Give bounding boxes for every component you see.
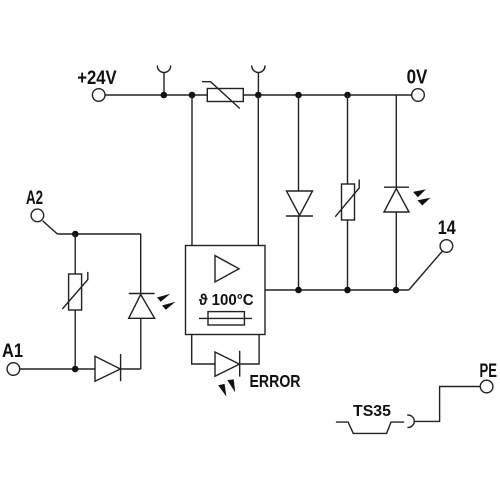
LED D5 light arrow 1 [157, 294, 170, 302]
varistor RV1 diagonal [202, 82, 240, 109]
wire diode branch upper [298, 95, 300, 191]
diode D1 [95, 354, 121, 381]
varistor RV3 body [69, 274, 82, 310]
svg-text:+24V: +24V [77, 67, 117, 89]
varistor RV3 diagonal [62, 272, 88, 309]
wire socket stem 1 [163, 73, 165, 95]
wire A2 diagonal lead [43, 221, 58, 234]
fuse F1 body [208, 312, 244, 325]
svg-text:14: 14 [438, 217, 456, 239]
wire LED branch upper [395, 95, 397, 187]
ERROR LED D4 [215, 351, 240, 377]
ERROR LED light arrow 2 [227, 379, 235, 392]
junction dot A1 wire [72, 366, 79, 373]
ERROR LED light arrow 1 [218, 384, 226, 397]
DIN rail TS35 profile [336, 422, 404, 433]
junction dot top bus (diode branch) [295, 92, 302, 99]
LED D5 light arrow 2 [162, 302, 176, 310]
terminal A2 [31, 209, 44, 222]
varistor RV2 body [342, 184, 355, 220]
varistor RV2 diagonal [335, 180, 359, 217]
wire lower bus [265, 289, 409, 291]
wire LED D5 upper lead [140, 234, 142, 294]
LED D3 light arrow 1 [413, 189, 426, 197]
svg-text:A1: A1 [2, 340, 23, 362]
wire LED branch lower [395, 212, 397, 290]
relay electronics box U1 [186, 246, 266, 335]
svg-text:ERROR: ERROR [250, 371, 301, 391]
wire PE lead [414, 387, 480, 422]
LED D3 [384, 187, 409, 212]
wire box left lead [191, 95, 193, 246]
wire varistor RV3 lower lead [74, 310, 76, 369]
terminal A1 [7, 363, 20, 376]
socket contact arc 2 [252, 65, 265, 72]
socket contact arc PE [407, 415, 414, 427]
junction dot lower bus (diode branch) [295, 287, 302, 294]
diode D2 [286, 191, 313, 216]
wire varistor RV3 upper lead [74, 234, 76, 274]
varistor RV1 body [207, 89, 243, 102]
LED D5 [129, 294, 155, 319]
junction dot lower bus (LED branch) [393, 287, 400, 294]
svg-text:ϑ 100°C: ϑ 100°C [199, 292, 254, 309]
svg-text:0V: 0V [407, 67, 428, 89]
wire A2 bus [57, 233, 141, 235]
terminal 14 [440, 240, 453, 253]
wire diode branch lower [298, 216, 300, 290]
switch contact to 14 [409, 251, 443, 290]
svg-text:PE: PE [480, 360, 498, 382]
wire LED D5 lower lead [140, 318, 142, 369]
svg-text:A2: A2 [26, 187, 43, 209]
junction dot top bus (varistor branch) [344, 92, 351, 99]
terminal +24V [92, 89, 105, 102]
junction dot top bus (socket 1) [161, 92, 168, 99]
wire box right lead [257, 95, 259, 246]
wire top bus left segment [105, 94, 207, 96]
wire A1 to diode [20, 368, 95, 370]
terminal PE [480, 380, 493, 393]
LED D3 light arrow 2 [418, 198, 431, 206]
junction dot top bus (box left lead) [189, 92, 196, 99]
wire socket stem 2 [257, 73, 259, 95]
wire ERROR loop left [192, 335, 215, 364]
terminal 0V [412, 89, 425, 102]
wire diode D1 to LED branch [121, 368, 141, 370]
junction dot A2 bus [72, 231, 79, 238]
fuse F1 through line [199, 317, 252, 319]
wire varistor branch lower [347, 220, 349, 290]
socket contact arc 1 [157, 65, 170, 72]
svg-text:TS35: TS35 [353, 403, 391, 420]
junction dot top bus (socket 2 / box right lead) [255, 92, 262, 99]
amplifier symbol [215, 256, 239, 282]
junction dot lower bus (varistor branch) [344, 287, 351, 294]
wire top bus right segment [243, 94, 411, 96]
wire varistor branch upper [347, 95, 349, 184]
wire ERROR loop right [240, 335, 259, 364]
